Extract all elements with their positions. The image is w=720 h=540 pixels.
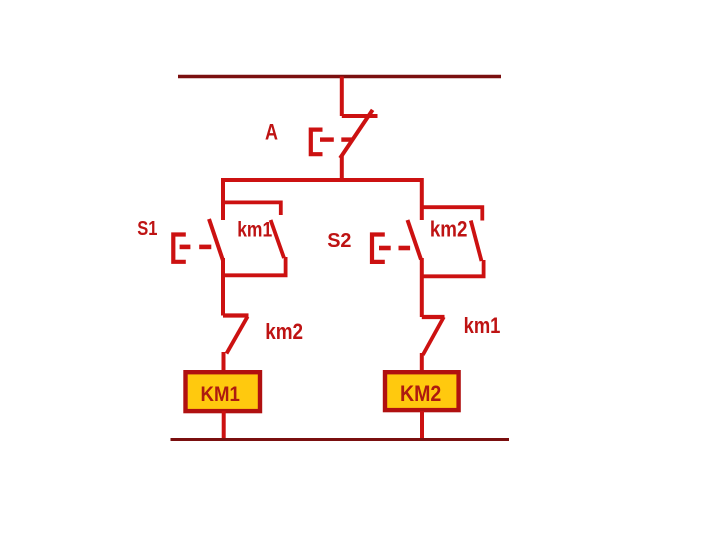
- pushbutton S2 blade: [408, 220, 422, 260]
- pushbutton S1 blade: [209, 219, 223, 261]
- S1 linkage dash 1: [180, 245, 191, 250]
- km1 holding contact bottom bar: [223, 257, 286, 275]
- km2 holding contact top bar: [422, 207, 483, 220]
- S2 linkage dash 1: [379, 246, 391, 251]
- label KM2: [400, 381, 441, 406]
- svg-text:km2: km2: [430, 217, 468, 242]
- svg-text:KM1: KM1: [201, 382, 240, 406]
- svg-text:S1: S1: [137, 218, 157, 240]
- top supply rail: [178, 75, 501, 78]
- wire S1 down to interlock km2: [221, 258, 225, 316]
- interlock contact km2 blade: [227, 317, 248, 354]
- wire S2 down to interlock km1: [420, 258, 424, 317]
- svg-text:km1: km1: [464, 313, 501, 338]
- S1 linkage dash 2: [199, 245, 211, 250]
- svg-text:KM2: KM2: [400, 381, 441, 406]
- switch A linkage dash 2: [341, 137, 352, 141]
- switch A linkage dash 1: [320, 137, 334, 141]
- km1 holding contact top bar: [223, 202, 281, 215]
- S1 actuator bracket: [173, 235, 186, 262]
- km1 holding contact blade: [271, 220, 284, 258]
- label km2 (holding contact): [430, 217, 468, 242]
- label KM1: [201, 382, 240, 406]
- S2 linkage dash 2: [399, 246, 411, 251]
- interlock contact km1 blade: [423, 317, 444, 355]
- middle rail with corners down to both branches: [223, 180, 422, 220]
- label S1: [137, 218, 157, 240]
- km2 holding contact blade: [471, 221, 482, 262]
- svg-text:km2: km2: [265, 319, 303, 344]
- wire coil KM1 to bottom rail: [222, 411, 226, 440]
- switch A fixed contact bar: [342, 114, 378, 118]
- coil KM2 box: [385, 372, 459, 410]
- svg-text:km1: km1: [237, 217, 272, 241]
- wire interlock to coil KM1: [222, 352, 226, 371]
- label km1 (holding contact): [237, 217, 272, 241]
- wire coil KM2 to bottom rail: [420, 411, 424, 440]
- km2 holding contact bottom bar: [422, 260, 484, 276]
- label km1 (interlock): [464, 313, 501, 338]
- label km2 (interlock): [265, 319, 303, 344]
- label A: [265, 120, 278, 145]
- bottom supply rail: [171, 438, 510, 441]
- wire switch A to middle rail: [340, 155, 344, 181]
- switch A blade: [341, 112, 371, 157]
- svg-text:S2: S2: [327, 230, 351, 252]
- interlock contact km1 tick: [422, 315, 445, 319]
- switch A actuator bracket: [311, 130, 323, 155]
- label S2: [327, 230, 351, 252]
- S2 actuator bracket: [372, 235, 385, 262]
- svg-text:A: A: [265, 120, 278, 145]
- interlock contact km2 tick: [223, 313, 249, 317]
- wire from top rail to switch A: [340, 77, 344, 117]
- wire interlock to coil KM2: [420, 353, 424, 371]
- coil KM1 box: [186, 372, 261, 411]
